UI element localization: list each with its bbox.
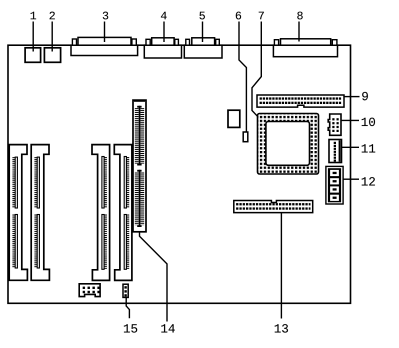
PCI slot 1 (middle) [92,145,110,281]
connector 15 (3-pin jumper) [123,284,128,297]
port 2 (PS/2 keyboard connector) [44,48,60,63]
leader line 7 [252,22,261,117]
label 3 [103,12,108,20]
label 11 [362,144,375,152]
label 2 [50,12,55,20]
port 8 (USB connector) [273,39,337,57]
label 8 [297,12,302,20]
label 13 [275,324,288,332]
label 1 [31,12,37,20]
label 9 [362,92,368,100]
leader line 2 [51,22,53,52]
ISA slot 1 (left) [9,145,27,281]
fan/panel header (unlabeled, bottom left) [79,284,100,297]
label 7 [259,12,264,20]
connector 13 (IDE header) [234,201,313,213]
leader line 15 [126,297,129,318]
leader line 5 [202,22,204,43]
port 4 (serial port COM1) [144,38,181,58]
motherboard outline [8,45,351,303]
label 10 [362,118,375,126]
leader line 12 [343,178,359,180]
AGP slot 14 [133,100,146,232]
leader line 1 [32,22,34,52]
leader line 13 [280,213,282,319]
leader line 14 [140,232,168,322]
label 15 [124,324,137,332]
leader line 8 [298,22,300,42]
PCI slot 2 (middle) [114,145,132,281]
chip (clock generator, unlabeled) [228,110,240,127]
connector 9 (DIMM/memory header) [257,95,344,107]
connector 11 (IR header) [329,140,342,163]
leader line 6 [239,22,246,133]
connector 10 (fan power header) [328,114,341,135]
connector 12 (power connector block) [326,166,343,204]
leader line 10 [341,119,359,121]
leader line 11 [342,146,360,148]
component 6 (voltage regulator) [243,132,248,142]
label 5 [199,12,204,20]
port 1 (PS/2 mouse connector) [25,48,40,63]
label 4 [161,12,167,20]
ISA slot 2 (left) [31,145,49,281]
port 5 (serial port COM2) [184,38,222,58]
leader line 9 [344,96,360,98]
CPU socket 7 [258,114,319,175]
leader line 4 [163,22,165,43]
leader line 3 [104,22,106,43]
label 14 [161,324,174,332]
port 3 (parallel port) [71,37,138,55]
label 6 [236,12,241,20]
label 12 [362,177,375,185]
